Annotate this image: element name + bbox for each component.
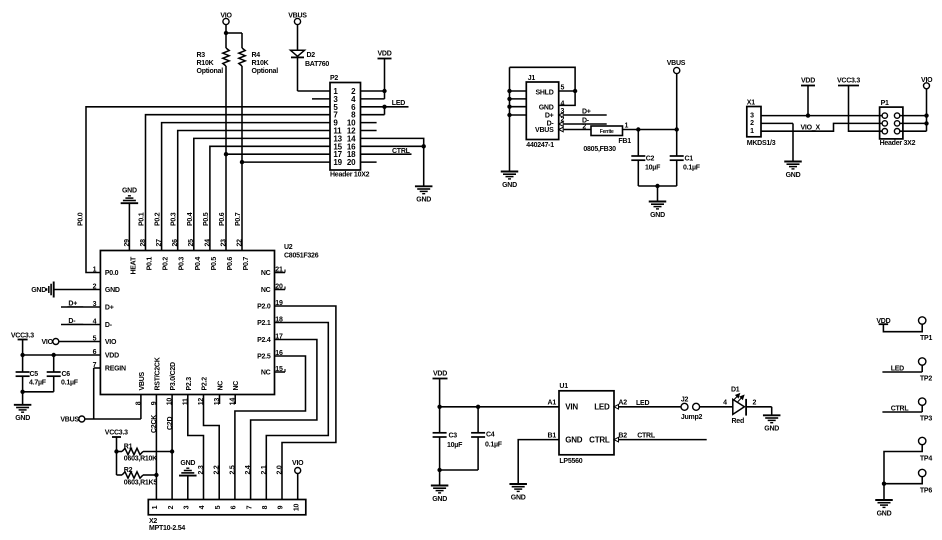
svg-text:P1: P1 [881,100,889,107]
svg-text:R10K: R10K [197,60,214,67]
ground GND (sideways) at U2 pin2 [54,289,101,291]
power VDD (right) [801,85,815,87]
svg-text:P0.3: P0.3 [171,212,178,226]
svg-text:2: 2 [561,117,565,124]
wire C1/C2 to GND [638,185,676,187]
wire 2.0 net: U2 pin19 to X2 pin9 [275,306,336,500]
wire P0.6 net: R3 down to U2 pin23, junction at P2 pin17 row [225,66,227,251]
svg-text:Header 3X2: Header 3X2 [880,140,916,147]
svg-text:P0.4: P0.4 [187,212,194,226]
ground GND above U2 HEAT pin29 [128,203,130,250]
ferrite bead FB1 [591,126,623,136]
svg-text:TP1: TP1 [920,335,932,342]
svg-text:J2: J2 [681,396,689,403]
connector J1 440247-1 body [526,82,558,140]
svg-text:1: 1 [750,128,754,135]
svg-text:2.1: 2.1 [261,465,268,474]
svg-text:VDD: VDD [433,370,447,377]
svg-text:10µF: 10µF [645,164,661,171]
svg-text:VBUS: VBUS [60,417,79,424]
svg-text:P2.2: P2.2 [202,377,209,391]
resistor R1 0603,R10K [117,451,123,453]
wire P0.0 net: P2 pin5 to U2 pin1 [86,107,330,273]
resistor R2 0603,R1K5 [117,474,123,476]
svg-text:GND: GND [31,287,46,294]
svg-text:P0.2: P0.2 [155,212,162,226]
svg-text:CTRL: CTRL [891,405,910,412]
svg-text:Ferrite: Ferrite [600,129,614,135]
wire VIO to R3/R4 [225,25,227,48]
svg-text:1: 1 [152,505,159,509]
test point TP2 with LED net [882,371,922,373]
ground GND (C3/C4) [431,485,449,487]
header P2 [330,83,361,171]
svg-text:P0.6: P0.6 [227,257,234,271]
svg-text:GND: GND [764,426,779,433]
svg-text:U2: U2 [284,244,293,251]
svg-text:0.1µF: 0.1µF [61,380,79,387]
svg-text:P0.5: P0.5 [211,257,218,271]
P1 pin circles row at 131.2 [882,129,887,134]
power VDD (TP1) [879,323,889,325]
svg-text:CTRL: CTRL [589,435,610,444]
svg-text:0603,R10K: 0603,R10K [124,456,157,463]
svg-text:B2: B2 [618,432,627,439]
svg-text:CTRL: CTRL [637,433,656,440]
svg-text:440247-1: 440247-1 [526,142,554,149]
svg-text:GND: GND [511,494,526,501]
svg-text:P0.2: P0.2 [163,257,170,271]
LED D1 Red [733,399,745,414]
ground GND (U1) [509,483,527,485]
P1 pin circles row at 115.6 [882,113,887,118]
svg-text:23: 23 [220,239,227,247]
U2 pin20 NC stub [275,289,286,291]
svg-text:VDD: VDD [377,50,391,57]
svg-text:BAT760: BAT760 [305,61,329,68]
svg-text:2: 2 [168,505,175,509]
svg-text:NC: NC [261,270,271,277]
svg-text:P0.1: P0.1 [147,257,154,271]
capacitor C4 0.1uF [477,407,479,433]
svg-text:2.5: 2.5 [229,465,236,474]
svg-text:GND: GND [539,105,554,112]
wire VIO_X net: X1 pin1 to P1 row2 [761,123,882,131]
IC U1 LP5560 body [559,391,614,455]
wire P2 pin19 row to P0.7 [242,161,330,163]
svg-text:10µF: 10µF [447,442,463,449]
svg-text:C5: C5 [30,371,39,378]
wire P2 pin3 stub [312,98,330,100]
power VDD (top) [378,58,392,60]
svg-text:P2.5: P2.5 [257,354,271,361]
svg-text:4: 4 [199,505,206,509]
svg-text:VIO: VIO [41,339,53,346]
test point TP1 [883,324,922,332]
svg-text:GND: GND [416,197,431,204]
J1 left shield stubs [510,90,527,92]
svg-text:U1: U1 [559,383,568,390]
J1 shield loop wire [510,67,576,105]
svg-text:Optional: Optional [197,68,224,75]
svg-text:VBUS: VBUS [535,127,554,134]
svg-text:19: 19 [333,158,342,167]
net label D- at U2 pin4 [61,324,100,326]
capacitor C6 0.1uF [53,355,55,372]
svg-text:9: 9 [278,505,285,509]
svg-text:Header 10X2: Header 10X2 [330,172,370,179]
wire J1 pin5 [559,90,575,92]
svg-text:P2.3: P2.3 [186,377,193,391]
svg-text:LED: LED [392,100,405,107]
svg-text:GND: GND [650,212,665,219]
wire P0.1 net: P2 pin7 to U2 pin28 [146,115,331,251]
svg-text:3: 3 [750,112,754,119]
svg-text:VCC3.3: VCC3.3 [11,333,34,340]
svg-text:HEAT: HEAT [130,256,137,275]
diode D2 BAT760 [297,25,299,51]
svg-text:P3.0/C2D: P3.0/C2D [170,362,177,391]
svg-text:10: 10 [293,504,300,512]
resistor R3 [223,48,229,66]
svg-text:MPT10-2.54: MPT10-2.54 [149,525,185,532]
svg-text:6: 6 [231,505,238,509]
power VDD (U1) [433,378,448,380]
svg-text:P0.4: P0.4 [195,257,202,271]
svg-text:C8051F326: C8051F326 [284,253,319,260]
wire D- from J1 pin2 [559,122,564,127]
wire VBUS to U2 pin8 [85,418,141,420]
svg-text:LED: LED [891,365,904,372]
svg-text:GND: GND [432,496,447,503]
svg-text:P0.7: P0.7 [243,257,250,271]
svg-text:4: 4 [723,400,727,407]
header P1 3X2 body [880,107,903,139]
D1 emission arrows [734,394,744,402]
wire C2D: U2 pin10 to X2 pin2 [171,395,173,500]
ground GND (J1) [501,171,519,173]
svg-text:X1: X1 [747,100,755,107]
svg-text:0.1µF: 0.1µF [683,164,701,171]
wire VCC3.3 to P1 row3 [849,86,883,132]
svg-text:GND: GND [180,460,195,467]
svg-text:GND: GND [105,287,120,294]
svg-text:D-: D- [105,322,113,329]
svg-text:NC: NC [261,370,271,377]
svg-text:RST/C2CK: RST/C2CK [154,357,161,390]
U2 pin15 NC stub [275,371,286,373]
svg-text:GND: GND [786,172,801,179]
U2 pin14 NC stub [234,395,236,405]
wire to GND (TP) [883,484,885,500]
wire D2 to P2 pin1 [297,57,299,91]
svg-text:4: 4 [561,101,565,108]
svg-text:VIO_X: VIO_X [801,124,821,131]
ground GND (TP) [875,499,893,501]
svg-text:LED: LED [636,400,649,407]
svg-text:2: 2 [753,400,757,407]
svg-text:B1: B1 [548,432,557,439]
wire J1 shield to GND [509,67,511,171]
svg-text:VBUS: VBUS [139,371,146,390]
svg-text:8: 8 [262,505,269,509]
svg-text:4.7µF: 4.7µF [29,380,47,387]
svg-text:LED: LED [594,402,610,411]
wire P0.4 net: P2 pin13 to U2 pin25 [194,138,330,250]
svg-text:D+: D+ [545,112,554,119]
ground GND (X1) [784,161,802,163]
ground GND (D1) [763,414,781,416]
svg-text:0.1µF: 0.1µF [485,442,503,449]
power VCC3.3 (right) [838,85,859,87]
svg-text:NC: NC [218,381,225,391]
svg-text:VCC3.3: VCC3.3 [105,429,128,436]
net label D+ at U2 pin3 [61,306,100,308]
op-amp U2 C8051F326 MCU body [100,251,274,395]
svg-text:2.4: 2.4 [245,465,252,474]
wires P1 right column to VIO [900,115,927,117]
ground GND (C5/C6) [14,404,32,406]
wire 2.1 net: U2 pin18 to X2 pin8 [266,323,328,500]
svg-text:TP2: TP2 [920,376,932,383]
header X2 MPT10-2.54 [148,500,305,515]
svg-text:P0.0: P0.0 [105,270,119,277]
svg-text:NC: NC [233,381,240,391]
svg-text:P0.0: P0.0 [78,212,85,226]
wire VBUS from J1 pin1 to FB1 [559,127,564,132]
svg-text:5: 5 [561,84,565,91]
svg-text:TP4: TP4 [920,456,932,463]
wire P2 pin10 stub [361,122,377,124]
svg-text:20: 20 [347,158,356,167]
wire LED net at P2 pins 6,8 [382,105,386,109]
svg-text:D1: D1 [731,387,740,394]
svg-text:A1: A1 [548,400,557,407]
svg-text:2.2: 2.2 [214,465,221,474]
svg-text:27: 27 [156,239,163,247]
P1 pin circles row at 123.4 [882,121,887,126]
wire P2 pins 14,16 to GND [361,138,424,146]
svg-text:GND: GND [565,435,583,444]
svg-text:R1: R1 [124,443,133,450]
ground GND (P2) [415,185,433,187]
test point TP6 [919,469,926,476]
wire 2.5 net: U2 pin16 to X2 pin6 [235,356,306,500]
wire P0.2 net: P2 pin9 to U2 pin27 [162,123,330,251]
svg-text:R3: R3 [197,52,206,59]
resistor R4 [239,48,245,66]
svg-text:P2.0: P2.0 [257,304,271,311]
svg-text:MKDS1/3: MKDS1/3 [747,140,776,147]
svg-text:R10K: R10K [252,60,269,67]
svg-text:A2: A2 [618,400,627,407]
svg-text:P2: P2 [330,75,338,82]
wire P0.5 net: P2 pin15 to U2 pin24 [210,146,330,250]
svg-text:GND: GND [502,182,517,189]
wire D1 to GND [746,406,772,408]
wire 2.2 net: U2 pin12 to X2 pin5 [204,395,220,500]
jumper J2 Jump2 [681,403,688,410]
capacitor C2 10uF [637,130,639,157]
ground GND at X2 pin3 [187,476,189,500]
capacitor C5 4.7uF [22,355,24,372]
svg-text:3: 3 [184,505,191,509]
svg-text:2: 2 [582,124,586,131]
wire P0.7 net: R4 down to U2 pin22, junction at P2 pin19 row [241,66,243,251]
svg-text:GND: GND [877,510,892,517]
svg-text:Jump2: Jump2 [681,414,703,421]
svg-text:26: 26 [172,239,179,247]
svg-text:Red: Red [732,418,744,425]
svg-text:D+: D+ [582,108,591,115]
test point TP4 [919,437,926,444]
svg-text:0603,R1K5: 0603,R1K5 [124,479,158,486]
svg-text:VDD: VDD [876,318,890,325]
svg-text:VCC3.3: VCC3.3 [837,77,860,84]
svg-text:R2: R2 [124,467,133,474]
U1 pin A2 LED output [614,405,619,410]
svg-text:D2: D2 [307,52,316,59]
svg-text:D+: D+ [105,305,114,312]
svg-text:TP3: TP3 [920,415,932,422]
svg-text:GND: GND [15,415,30,422]
svg-text:22: 22 [236,239,243,247]
svg-text:P0.3: P0.3 [179,257,186,271]
svg-text:C2D: C2D [167,417,174,430]
svg-text:TP6: TP6 [920,487,932,494]
svg-text:R4: R4 [252,52,261,59]
svg-text:3: 3 [561,108,565,115]
svg-text:25: 25 [188,239,195,247]
svg-text:C2: C2 [646,156,655,163]
wire VDD to P2 pins 2,4 [384,59,386,99]
capacitor C1 0.1uF [676,130,678,157]
U2 pin13 NC stub [219,395,221,405]
wire VDD to U1 VIN [440,406,559,408]
capacitor C3 10uF [439,407,441,433]
wire CTRL net from U1 B2 [614,437,619,442]
svg-text:VBUS: VBUS [667,60,686,67]
U2 pin21 NC stub [275,272,286,274]
wire FB1 to VBUS node [623,129,677,131]
svg-text:GND: GND [122,187,137,194]
svg-text:P0.1: P0.1 [139,212,146,226]
wire J2 to D1 [700,406,733,408]
svg-text:Optional: Optional [252,68,279,75]
svg-text:CTRL: CTRL [392,148,411,155]
svg-text:7: 7 [246,505,253,509]
svg-text:P0.5: P0.5 [203,212,210,226]
wire VCC3.3 to U2 pin6 VDD [22,340,24,356]
svg-text:J1: J1 [528,75,536,82]
svg-text:LP5560: LP5560 [559,458,582,465]
wire 2.3 net: U2 pin11 to X2 pin4 [188,395,204,500]
connector X1 MKDS1/3 body [747,107,761,137]
svg-text:24: 24 [204,239,211,247]
ground GND (C1/C2) [649,201,667,203]
svg-text:P0.6: P0.6 [219,212,226,226]
svg-text:SHLD: SHLD [535,90,553,97]
svg-text:X2: X2 [149,518,157,525]
wire CTRL net at P2 pin18 [361,153,412,155]
svg-text:C2CK: C2CK [151,415,158,433]
svg-text:P0.7: P0.7 [235,212,242,226]
svg-text:VIO: VIO [292,460,304,467]
svg-text:C1: C1 [685,156,694,163]
svg-text:P2.1: P2.1 [257,320,271,327]
svg-text:C6: C6 [62,371,71,378]
wire P2 pin20 stub [361,161,377,163]
wire P0.3 net: P2 pin11 to U2 pin26 [178,131,330,251]
svg-text:2.3: 2.3 [198,465,205,474]
svg-text:C4: C4 [486,432,495,439]
svg-text:P2.4: P2.4 [257,337,271,344]
wire X1 pin2 to GND [761,122,793,124]
svg-text:VIO: VIO [105,339,117,346]
svg-text:REGIN: REGIN [105,366,126,373]
svg-text:2: 2 [750,120,754,127]
wire 2.4 net: U2 pin17 to X2 pin7 [251,340,317,500]
svg-text:VDD: VDD [801,77,815,84]
svg-text:1: 1 [93,266,97,273]
wire P2 pin12 stub [361,130,377,132]
svg-text:VIN: VIN [565,402,578,411]
svg-text:28: 28 [140,239,147,247]
svg-text:FB1: FB1 [618,138,631,145]
test point TP3 with CTRL net [882,411,922,413]
svg-text:VDD: VDD [105,353,119,360]
wire P2 pin17 row to P0.6 [226,153,330,155]
wire X1 pin3 to P1 (VDD row) [761,115,882,117]
wire C2CK: U2 pin9 to X2 pin1 [155,395,157,500]
svg-text:1: 1 [625,123,629,130]
svg-text:2.0: 2.0 [277,465,284,474]
svg-text:C3: C3 [449,433,458,440]
svg-text:5: 5 [215,505,222,509]
wire D+ from J1 pin3 [559,113,564,118]
wire REGIN pin7 to VBUS [94,367,101,369]
svg-text:NC: NC [261,287,271,294]
svg-text:0805,FB30: 0805,FB30 [583,146,616,153]
